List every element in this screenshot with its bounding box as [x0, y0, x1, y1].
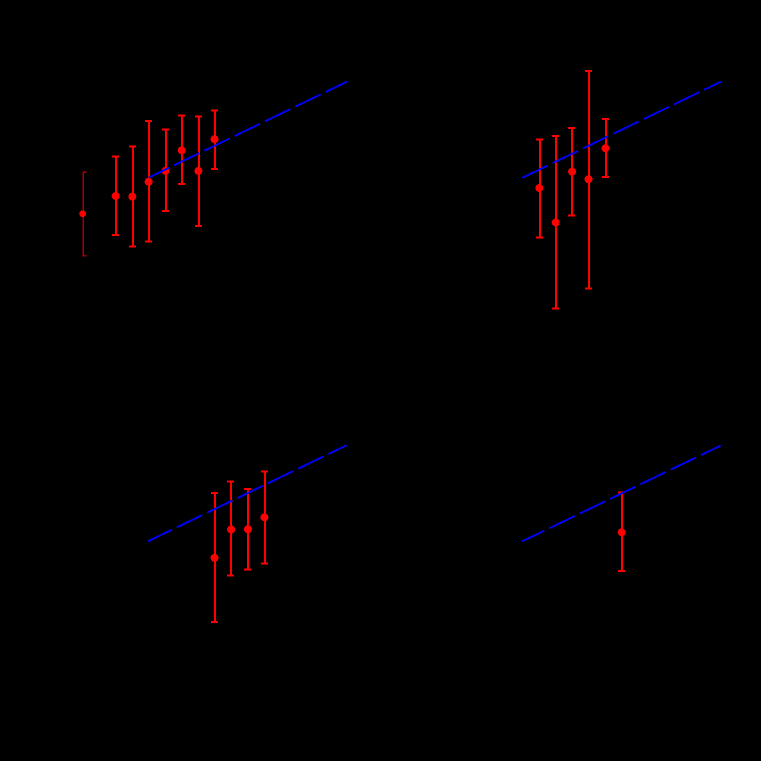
data point TR1 with error bar	[536, 140, 543, 238]
fit line (bottom-left panel)	[148, 445, 347, 541]
data point BL1 with error bar	[211, 493, 218, 622]
fit line (top-right panel)	[522, 82, 721, 178]
data point TR3 with error bar	[568, 128, 575, 215]
data point BL2 with error bar	[227, 481, 234, 575]
data point TL8 with error bar	[211, 111, 218, 169]
data point TL4 with error bar	[145, 121, 152, 241]
fit line (top-left panel)	[149, 82, 348, 178]
fit line (bottom-right panel)	[522, 446, 721, 542]
data point TR2 with error bar	[552, 136, 559, 308]
data point TL5 with error bar	[162, 130, 169, 211]
data point TR4 with error bar	[585, 71, 592, 288]
data point BL4 with error bar	[261, 472, 268, 564]
data point TL1 with error bar (thin dark bar, right-side caps)	[79, 172, 86, 255]
data point TL7 with error bar	[195, 116, 202, 226]
data point BL3 with error bar	[244, 489, 251, 570]
data point TL3 with error bar	[129, 147, 136, 247]
data point BR1 with error bar	[618, 492, 625, 571]
data point TR5 with error bar	[602, 119, 609, 177]
data point TL2 with error bar	[112, 156, 119, 235]
data point TL6 with error bar	[178, 116, 185, 185]
